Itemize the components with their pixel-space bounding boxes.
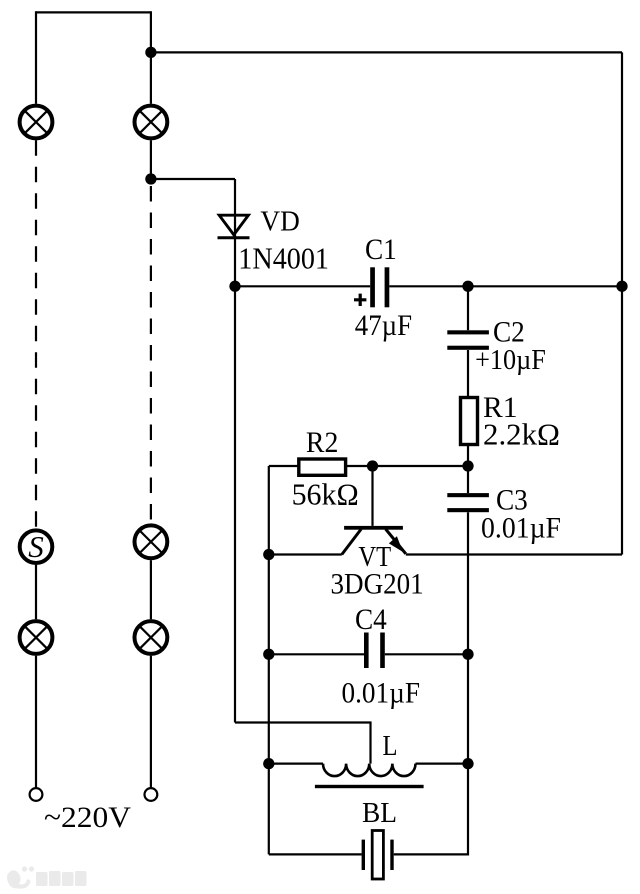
svg-text:1N4001: 1N4001: [238, 240, 329, 275]
wire C2 to R1: [467, 350, 469, 398]
wire right column upper: [150, 11, 152, 103]
wire diode column: [234, 179, 236, 723]
wire lamp4 to lamp5: [150, 560, 152, 619]
node C4 left: [263, 649, 274, 660]
node R1 C3: [462, 460, 473, 471]
wire R1 to C3: [467, 445, 469, 494]
node L left: [263, 758, 274, 769]
wire left column upper: [35, 11, 37, 103]
svg-text:56kΩ: 56kΩ: [292, 476, 359, 511]
svg-text:C1: C1: [365, 233, 397, 266]
capacitor C4: [364, 633, 385, 669]
svg-text:BL: BL: [362, 797, 397, 829]
wire R2 row right: [346, 465, 468, 467]
lamp EL3: [20, 621, 53, 654]
resistor R1: [461, 398, 478, 445]
node base R2: [367, 460, 378, 471]
wire top horizontal: [36, 11, 151, 13]
wire C1 row right: [389, 285, 622, 287]
capacitor C1: [354, 267, 389, 307]
node C1 C2: [462, 281, 473, 292]
node lamp branch: [145, 173, 156, 184]
wire far right rail: [621, 52, 623, 554]
lamp EL4: [135, 525, 168, 558]
terminal left: [30, 788, 43, 801]
watermark logo: [7, 866, 34, 888]
svg-text:C4: C4: [355, 603, 387, 636]
svg-text:2.2kΩ: 2.2kΩ: [483, 417, 560, 452]
wire center tap: [235, 723, 371, 764]
svg-text:0.01µF: 0.01µF: [481, 512, 561, 545]
wire C3 down right branch: [467, 512, 469, 763]
wire emitter row left: [269, 553, 342, 555]
svg-text:~220V: ~220V: [44, 801, 131, 834]
wire L row right: [416, 762, 469, 764]
lamp EL5: [135, 621, 168, 654]
wire L row left: [269, 762, 323, 764]
wire emitter column: [268, 466, 270, 854]
wire C4 row left: [269, 653, 364, 655]
node emitter left: [263, 549, 274, 560]
diode VD: [218, 215, 250, 238]
starter S: [20, 529, 53, 564]
wire right branch to BL: [394, 764, 468, 855]
capacitor C3: [447, 493, 489, 512]
wire lamp3 to terminal: [35, 656, 37, 788]
wire left column dashed: [35, 140, 37, 528]
wire second horizontal rail: [151, 51, 622, 53]
transistor VT: [342, 526, 406, 555]
svg-text:R2: R2: [306, 426, 339, 459]
wire S to lamp3: [35, 565, 37, 619]
svg-text:0.01µF: 0.01µF: [342, 677, 421, 710]
svg-text:3DG201: 3DG201: [331, 567, 424, 600]
wire R2 row left: [269, 465, 299, 467]
wire transistor base: [371, 466, 373, 526]
node C4 right: [462, 649, 473, 660]
wire right column dashed: [150, 186, 152, 523]
svg-text:L: L: [383, 731, 398, 762]
watermark text: [36, 871, 87, 886]
inductor L coil: [323, 764, 415, 777]
wire C1 row left: [235, 285, 370, 287]
node diode C1: [229, 281, 240, 292]
node rail top: [145, 47, 156, 58]
wire C4 row right: [385, 653, 468, 655]
wire right column lamp2 to node: [150, 140, 152, 179]
resistor R2: [299, 459, 346, 475]
terminal right: [145, 788, 158, 801]
node L right: [462, 758, 473, 769]
wire emitter column to BL: [269, 853, 362, 855]
piezo sounder BL: [362, 831, 394, 880]
lamp EL1: [20, 106, 53, 139]
wire node N above C2: [467, 286, 469, 330]
lamp EL2: [135, 106, 168, 139]
wire emitter row right: [406, 553, 622, 555]
svg-text:47µF: 47µF: [355, 309, 412, 342]
inductor L core bar: [315, 785, 424, 788]
node rail C1: [616, 281, 627, 292]
svg-text:VD: VD: [260, 205, 299, 237]
wire lamp5 to terminal: [150, 656, 152, 788]
capacitor C2: [447, 330, 489, 350]
svg-text:S: S: [28, 529, 44, 564]
svg-text:+10µF: +10µF: [475, 344, 546, 376]
wire node to diode branch: [151, 178, 235, 180]
